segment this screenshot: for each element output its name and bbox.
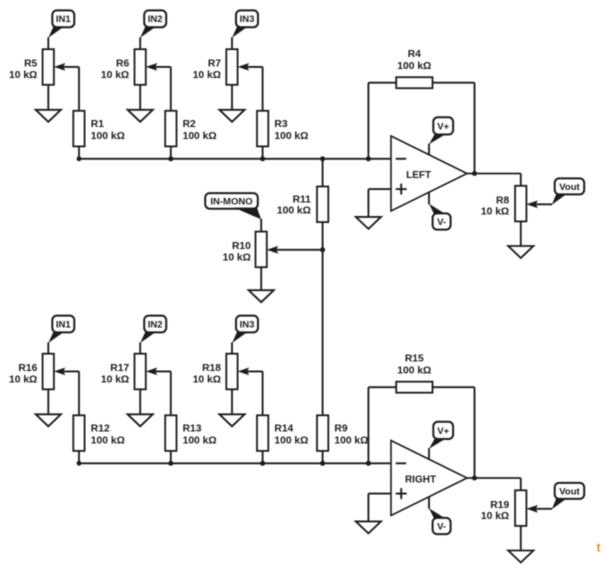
svg-text:R17: R17: [110, 363, 129, 374]
svg-text:R10: R10: [232, 241, 251, 252]
svg-text:R3: R3: [274, 119, 287, 130]
svg-text:R5: R5: [24, 59, 37, 70]
svg-text:100 kΩ: 100 kΩ: [91, 435, 125, 446]
svg-text:R19: R19: [490, 500, 509, 511]
svg-text:R8: R8: [496, 195, 509, 206]
svg-text:RIGHT: RIGHT: [405, 474, 436, 485]
svg-text:LEFT: LEFT: [406, 170, 431, 181]
svg-text:IN3: IN3: [240, 14, 255, 25]
svg-text:10 kΩ: 10 kΩ: [9, 374, 37, 385]
svg-text:100 kΩ: 100 kΩ: [277, 206, 311, 217]
svg-text:R13: R13: [183, 423, 202, 434]
svg-text:R4: R4: [408, 49, 421, 60]
svg-text:R9: R9: [334, 423, 347, 434]
svg-text:100 kΩ: 100 kΩ: [183, 435, 217, 446]
svg-text:100 kΩ: 100 kΩ: [183, 131, 217, 142]
svg-text:IN-MONO: IN-MONO: [210, 196, 252, 207]
svg-text:R18: R18: [202, 363, 221, 374]
svg-text:R2: R2: [183, 119, 196, 130]
svg-text:t: t: [597, 543, 601, 555]
svg-text:IN2: IN2: [148, 14, 163, 25]
svg-text:R7: R7: [208, 59, 221, 70]
svg-text:R12: R12: [91, 423, 110, 434]
svg-text:IN1: IN1: [56, 319, 72, 330]
svg-text:R1: R1: [91, 119, 104, 130]
svg-text:V-: V-: [437, 217, 446, 228]
svg-text:10 kΩ: 10 kΩ: [101, 374, 129, 385]
svg-text:R14: R14: [274, 423, 293, 434]
svg-text:100 kΩ: 100 kΩ: [91, 131, 125, 142]
svg-text:10 kΩ: 10 kΩ: [193, 374, 221, 385]
svg-text:10 kΩ: 10 kΩ: [481, 207, 509, 218]
svg-text:10 kΩ: 10 kΩ: [481, 511, 509, 522]
svg-text:V+: V+: [437, 121, 449, 132]
svg-text:100 kΩ: 100 kΩ: [397, 61, 431, 72]
svg-text:IN2: IN2: [148, 319, 163, 330]
svg-text:R16: R16: [18, 363, 37, 374]
svg-text:V+: V+: [437, 426, 449, 437]
svg-text:10 kΩ: 10 kΩ: [223, 252, 251, 263]
svg-text:100 kΩ: 100 kΩ: [274, 435, 308, 446]
svg-text:10 kΩ: 10 kΩ: [101, 70, 129, 81]
svg-text:Vout: Vout: [559, 486, 580, 497]
svg-text:R6: R6: [116, 59, 129, 70]
svg-text:IN1: IN1: [56, 14, 72, 25]
svg-text:Vout: Vout: [559, 182, 580, 193]
svg-text:V-: V-: [437, 521, 446, 532]
svg-text:100 kΩ: 100 kΩ: [334, 435, 368, 446]
svg-text:IN3: IN3: [240, 319, 255, 330]
svg-text:10 kΩ: 10 kΩ: [9, 70, 37, 81]
svg-text:R11: R11: [293, 194, 312, 205]
svg-text:R15: R15: [405, 354, 424, 365]
svg-text:10 kΩ: 10 kΩ: [193, 70, 221, 81]
svg-text:100 kΩ: 100 kΩ: [397, 366, 431, 377]
svg-text:100 kΩ: 100 kΩ: [274, 131, 308, 142]
